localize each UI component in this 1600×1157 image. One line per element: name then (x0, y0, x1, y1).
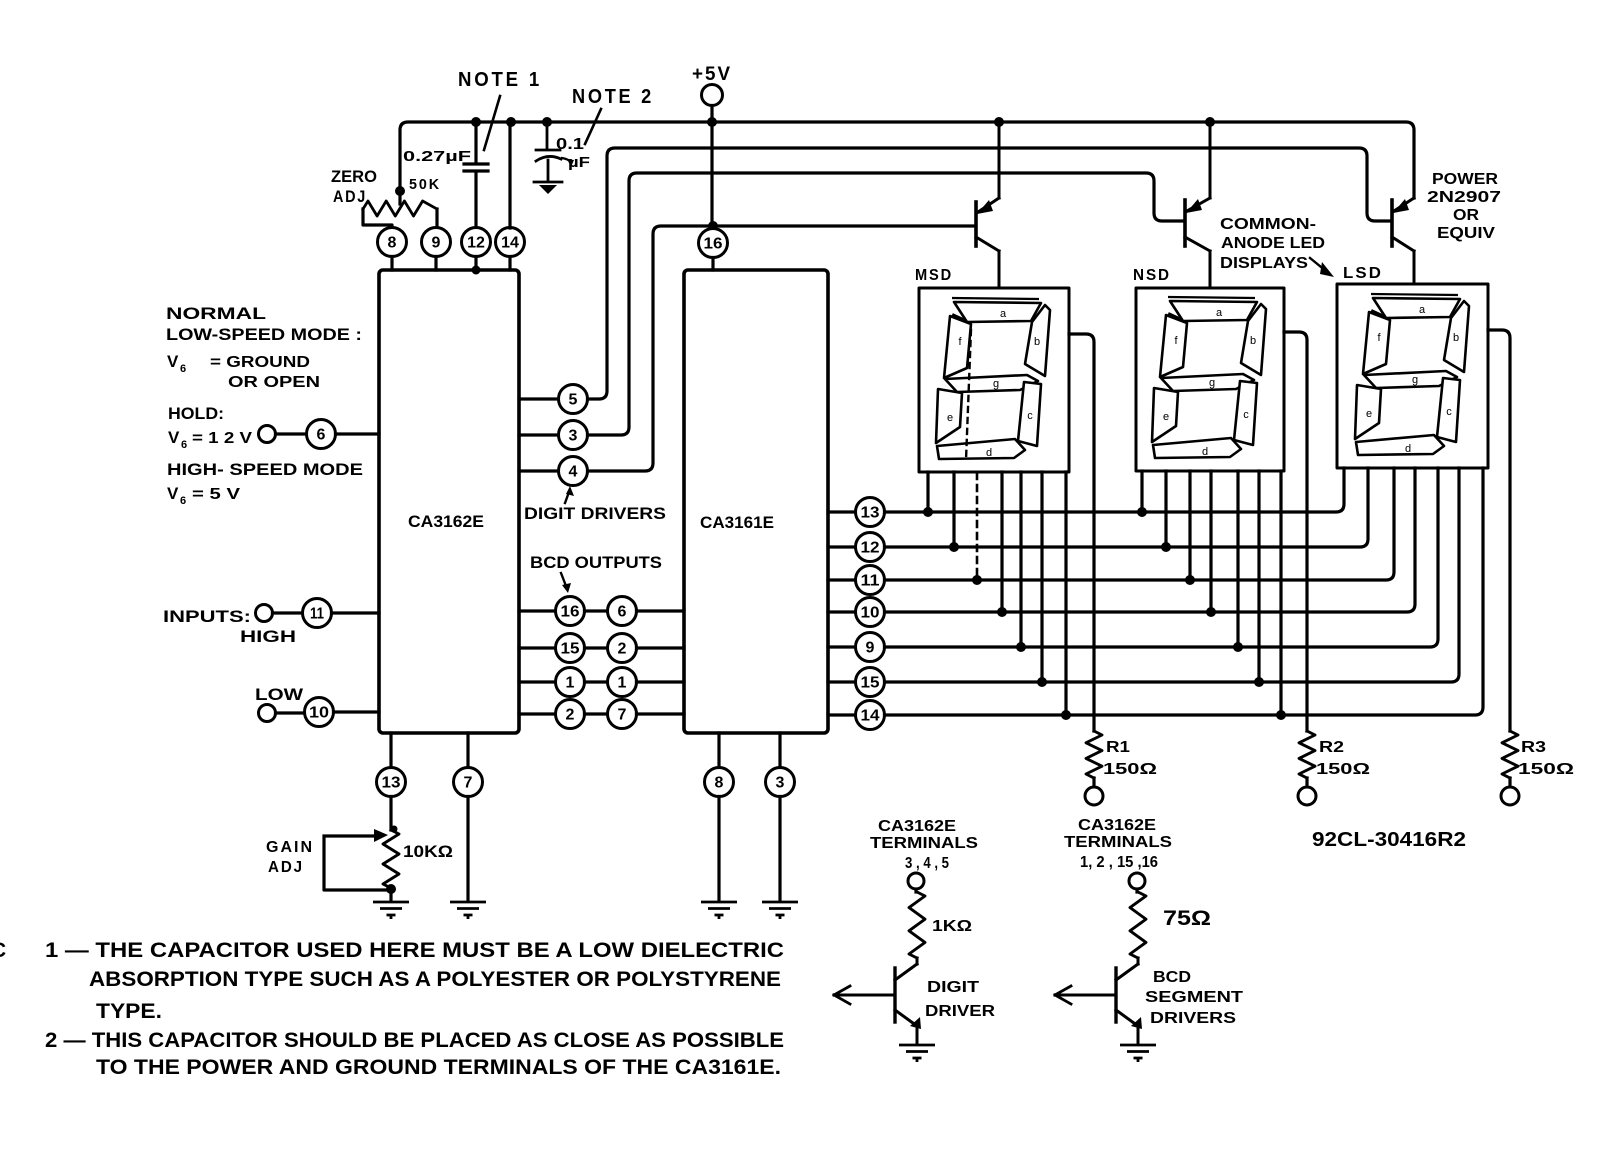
pin 3 (CA3161E) (766, 768, 795, 797)
svg-text:ADJ: ADJ (268, 859, 304, 876)
wire IC2 to pin 3 (778, 733, 781, 767)
svg-text:LSD: LSD (1343, 265, 1383, 282)
node pot top (391, 826, 398, 833)
wire +5V bus (top rail) (400, 122, 1414, 204)
wire pot wiper loop (324, 836, 390, 890)
wire pin14 stub (508, 257, 511, 271)
wire IC1 to pin 1 (519, 680, 555, 683)
svg-text:9: 9 (866, 640, 875, 657)
potentiometer gain 10K (383, 830, 399, 888)
leader NOTE 1 to C1 (484, 96, 500, 150)
wire MSD DP pin (dashed) (976, 473, 979, 578)
wire pin 2 to pin 7 (585, 712, 608, 715)
svg-text:R3: R3 (1521, 739, 1546, 756)
pin 9 (422, 228, 451, 257)
svg-text:1KΩ: 1KΩ (932, 918, 972, 935)
wire segment line 12 to LSD (885, 468, 1369, 547)
svg-text:NORMAL: NORMAL (166, 304, 266, 323)
svg-text:4: 4 (569, 464, 578, 481)
svg-text:+5V: +5V (692, 64, 732, 85)
wire NSD segment pin (1188, 471, 1191, 580)
svg-text:BCD: BCD (1153, 969, 1191, 986)
wire pot to ground (389, 888, 392, 901)
wire MSD segment pin (1019, 472, 1022, 647)
wire pin 2 to IC2 (637, 646, 685, 649)
wire IC2 to pin 8 (717, 733, 720, 767)
svg-text:6: 6 (180, 363, 186, 375)
svg-text:9: 9 (432, 235, 441, 252)
wire segment line 11 to LSD (885, 468, 1395, 580)
svg-text:50K: 50K (409, 176, 441, 193)
node pin12 at IC edge (472, 266, 481, 275)
svg-text:R2: R2 (1319, 739, 1344, 756)
wire pin14 to bus (508, 122, 511, 228)
wire R2 to terminal (1305, 778, 1308, 787)
svg-text:7: 7 (618, 707, 627, 724)
transistor bcd-segment sub-circuit (1055, 873, 1156, 1062)
+5V terminal (702, 85, 723, 106)
pin 1 (CA3162E) (556, 668, 585, 697)
transistor Q2 (NSD driver) (1185, 122, 1210, 288)
svg-text:CA3162E: CA3162E (408, 512, 484, 531)
node bus-Q1 emitter (994, 117, 1004, 127)
pin 15 (CA3161E right) (856, 668, 885, 697)
wire MSD segment pin (1040, 472, 1043, 682)
wire MSD segment pin (1000, 472, 1003, 612)
svg-text:12: 12 (861, 540, 880, 557)
node pot bottom (386, 884, 396, 894)
terminal R2 (1298, 787, 1316, 805)
wire segment line 13 to LSD (885, 468, 1345, 512)
wire pot wiper (395, 186, 405, 196)
wire MSD segment pin (926, 472, 929, 512)
wire segment line 10 to LSD (885, 468, 1416, 612)
wire pin3 to Q2 base (NSD) (588, 173, 1184, 435)
wire IC2 to pin 13 (828, 510, 855, 513)
wire IC2 to pin 10 (828, 610, 855, 613)
pin 10 (305, 698, 334, 727)
ground pin7 (450, 902, 486, 919)
leader NOTE 2 to C2 (585, 109, 601, 144)
wire IC1 to pin 15 (519, 646, 555, 649)
pin 7 (454, 768, 483, 797)
svg-text:V: V (167, 352, 179, 371)
pin 6 (307, 420, 336, 449)
pin 13 (CA3161E right) (856, 498, 885, 527)
leader arrow to C2 plate (562, 158, 574, 167)
capacitor C1 (464, 122, 488, 228)
pin 4 (559, 457, 588, 486)
svg-text:DIGIT: DIGIT (927, 979, 979, 996)
transistor Q1 (MSD driver) (976, 122, 999, 288)
wire NSD segment pin (1140, 471, 1143, 512)
node MSD DP junction (972, 575, 982, 585)
wire segment line 14 to LSD (885, 468, 1484, 715)
wire segment line 15 to LSD (885, 468, 1460, 682)
input terminal high (256, 605, 273, 622)
wire NSD segment pin (1164, 471, 1167, 547)
pin 2 (CA3161E) (608, 634, 637, 663)
svg-text:6: 6 (317, 427, 326, 444)
node bus-C2 (542, 117, 552, 127)
wire pin6 to IC (336, 432, 380, 435)
svg-text:6: 6 (618, 604, 627, 621)
wire NSD segment pin (1209, 471, 1212, 612)
pin 16 (699, 229, 728, 258)
wire pin7 to ground (466, 797, 469, 902)
svg-text:INPUTS:: INPUTS: (163, 607, 251, 626)
svg-text:DRIVER: DRIVER (925, 1003, 996, 1020)
svg-text:3: 3 (569, 428, 578, 445)
wire IC1 to pin 16 (519, 609, 555, 612)
svg-text:ABSORPTION TYPE SUCH AS A POLY: ABSORPTION TYPE SUCH AS A POLYESTER OR P… (89, 968, 781, 991)
wire NSD segment pin (1236, 471, 1239, 647)
svg-text:92CL-30416R2: 92CL-30416R2 (1312, 829, 1466, 851)
svg-text:6: 6 (180, 495, 186, 507)
wire low terminal to pin10 (276, 711, 305, 714)
svg-text:0.27µF: 0.27µF (403, 148, 471, 165)
pin 5 (559, 385, 588, 414)
svg-text:3 , 4 , 5: 3 , 4 , 5 (905, 855, 949, 872)
svg-text:2N2907: 2N2907 (1427, 189, 1501, 206)
wire IC1 to pin 7 (466, 733, 469, 767)
svg-text:OR OPEN: OR OPEN (228, 374, 320, 391)
node NSD junction (1276, 710, 1286, 720)
wire pot left end to pin 8 (363, 209, 392, 228)
svg-text:SEGMENT: SEGMENT (1145, 989, 1243, 1006)
svg-text:HIGH: HIGH (240, 627, 296, 646)
node NSD junction (1254, 677, 1264, 687)
pin 14 (CA3161E right) (856, 701, 885, 730)
svg-text:COMMON-: COMMON- (1220, 216, 1316, 233)
svg-text:1 — THE CAPACITOR USED HERE MU: 1 — THE CAPACITOR USED HERE MUST BE A LO… (45, 939, 784, 962)
wire NSD segment pin (1279, 471, 1282, 715)
wire IC to pin4 (519, 469, 558, 472)
wire IC to pin5 (519, 397, 558, 400)
wire MSD segment pin (1064, 472, 1067, 715)
node NSD junction (1206, 607, 1216, 617)
svg-text:NOTE 1: NOTE 1 (458, 69, 542, 91)
wire MSD segment pin (952, 472, 955, 547)
svg-text:150Ω: 150Ω (1518, 761, 1574, 778)
arrow bcd outputs to pin16 (561, 573, 571, 593)
node MSD junction (923, 507, 933, 517)
wire +5V to pin16 (710, 122, 713, 228)
pin 10 (CA3161E right) (856, 598, 885, 627)
node MSD junction (1061, 710, 1071, 720)
pin 8 (378, 228, 407, 257)
arrow digit drivers to pin4 (565, 486, 574, 503)
svg-text:V: V (167, 484, 179, 503)
wire IC2 to pin 14 (828, 713, 855, 716)
svg-text:15: 15 (861, 675, 880, 692)
node NSD junction (1137, 507, 1147, 517)
svg-text:75Ω: 75Ω (1163, 907, 1211, 930)
svg-text:ZERO: ZERO (331, 167, 377, 186)
dashed DP line MSD inner (966, 330, 971, 460)
wire IC1 to pin 2 (519, 712, 555, 715)
svg-text:TERMINALS: TERMINALS (1064, 834, 1172, 851)
svg-text:ADJ: ADJ (333, 187, 367, 206)
ground pin3 (762, 902, 798, 919)
svg-text:BCD OUTPUTS: BCD OUTPUTS (530, 553, 662, 572)
svg-text:2: 2 (618, 641, 627, 658)
svg-text:NSD: NSD (1133, 267, 1171, 284)
svg-text:7: 7 (464, 775, 473, 792)
wire pin9 stub (434, 257, 437, 271)
ground pin8 (701, 902, 737, 919)
node bus-Q2 emitter (1205, 117, 1215, 127)
wire pin 16 to pin 6 (585, 609, 608, 612)
pin 3 (559, 421, 588, 450)
terminal R1 (1085, 787, 1103, 805)
svg-text:1: 1 (566, 675, 575, 692)
wire pin 6 to IC2 (637, 609, 685, 612)
svg-text:GAIN: GAIN (266, 839, 314, 856)
pin 7 (CA3161E) (608, 700, 637, 729)
svg-text:150Ω: 150Ω (1103, 761, 1157, 778)
pin 9 (CA3161E right) (856, 633, 885, 662)
wire IC2 to pin 11 (828, 578, 855, 581)
wire pin 1 to pin 1 (585, 680, 608, 683)
node bus-pin14 (506, 117, 516, 127)
ground C2 (534, 182, 562, 194)
pin 6 (CA3161E) (608, 597, 637, 626)
svg-text:3: 3 (776, 775, 785, 792)
wire pin8 to ground (717, 797, 720, 902)
wire R3 to terminal (1508, 778, 1511, 787)
svg-text:11: 11 (310, 606, 324, 623)
wire IC2 to pin 15 (828, 680, 855, 683)
svg-text:13: 13 (382, 775, 401, 792)
svg-text:HIGH- SPEED MODE: HIGH- SPEED MODE (167, 460, 363, 479)
wire IC2 to pin 12 (828, 545, 855, 548)
wire IC2 to pin 9 (828, 645, 855, 648)
svg-text:1: 1 (618, 675, 627, 692)
svg-text:ANODE LED: ANODE LED (1221, 235, 1325, 252)
svg-text:R1: R1 (1106, 739, 1130, 756)
wire pin 15 to pin 2 (585, 646, 608, 649)
wire +5V to bus (710, 106, 713, 123)
svg-text:C: C (0, 939, 6, 962)
pin 16 (CA3162E) (556, 597, 585, 626)
node NSD junction (1233, 642, 1243, 652)
wire segment line 9 to LSD (885, 468, 1439, 647)
node pin16 bus crossing (708, 221, 718, 231)
svg-text:5: 5 (569, 392, 578, 409)
op-amp U2 CA3161E (684, 270, 828, 733)
svg-text:V: V (168, 428, 180, 447)
wire hold terminal to pin6 (276, 432, 307, 435)
svg-text:14: 14 (861, 708, 880, 725)
svg-text:150Ω: 150Ω (1316, 761, 1370, 778)
pin 15 (CA3162E) (556, 634, 585, 663)
svg-text:13: 13 (861, 505, 880, 522)
svg-text:1, 2 , 15 ,16: 1, 2 , 15 ,16 (1080, 854, 1158, 871)
capacitor C2 (536, 122, 561, 181)
display LSD (1337, 284, 1488, 468)
svg-text:2: 2 (566, 707, 575, 724)
node NSD junction (1161, 542, 1171, 552)
wire pin4 to Q1 base (MSD) (588, 226, 975, 471)
resistor R3 150ohm (1502, 731, 1518, 778)
display NSD (1136, 288, 1284, 471)
node MSD junction (1037, 677, 1047, 687)
resistor R2 150ohm (1299, 731, 1315, 778)
svg-text:TO THE POWER AND GROUND TERMIN: TO THE POWER AND GROUND TERMINALS OF THE… (96, 1056, 781, 1079)
terminal R3 (1501, 787, 1519, 805)
arrow pot wiper (374, 829, 388, 842)
pin 1 (CA3161E) (608, 668, 637, 697)
display MSD (919, 288, 1069, 472)
svg-text:CA3162E: CA3162E (1078, 817, 1156, 834)
wire pin 1 to IC2 (637, 680, 685, 683)
svg-text:LOW-SPEED MODE :: LOW-SPEED MODE : (166, 325, 362, 344)
svg-text:16: 16 (704, 236, 723, 253)
wire pin8 stub (390, 257, 393, 271)
node bus-C1 (471, 117, 481, 127)
wire pin13 to pot top (389, 797, 392, 831)
arrow to LSD (1310, 258, 1334, 277)
node MSD junction (949, 542, 959, 552)
transistor Q3 (LSD driver, 2N2907) (1392, 198, 1414, 284)
node +5V bus junction (707, 117, 717, 127)
wire pin3 to ground (778, 797, 781, 902)
node NSD junction (1185, 575, 1195, 585)
svg-text:10: 10 (309, 705, 329, 722)
svg-text:2 — THIS CAPACITOR SHOULD BE P: 2 — THIS CAPACITOR SHOULD BE PLACED AS C… (45, 1029, 784, 1052)
ground pot (373, 902, 409, 919)
svg-text:CA3161E: CA3161E (700, 513, 774, 532)
svg-text:LOW: LOW (255, 685, 304, 704)
svg-text:NOTE 2: NOTE 2 (572, 86, 654, 108)
svg-text:TYPE.: TYPE. (96, 1000, 162, 1023)
wire LSD to R3 (1488, 330, 1510, 731)
node MSD junction (997, 607, 1007, 617)
svg-text:8: 8 (715, 775, 724, 792)
svg-text:CA3162E: CA3162E (878, 818, 956, 835)
pin 14 (496, 228, 525, 257)
svg-text:12: 12 (467, 235, 485, 252)
pin 11 (303, 599, 332, 628)
pin 11 (CA3161E right) (856, 566, 885, 595)
svg-text:OR: OR (1453, 207, 1479, 224)
svg-text:14: 14 (501, 235, 519, 252)
wire pin5 to Q3 base (LSD) (588, 148, 1391, 399)
wire pin 7 to IC2 (637, 712, 685, 715)
svg-text:TERMINALS: TERMINALS (870, 835, 978, 852)
svg-text:10: 10 (861, 605, 880, 622)
svg-text:EQUIV: EQUIV (1437, 225, 1495, 242)
svg-text:HOLD:: HOLD: (168, 404, 224, 423)
svg-text:= 1 2 V: = 1 2 V (192, 430, 252, 447)
pin 8 (CA3161E) (705, 768, 734, 797)
pin 2 (CA3162E) (556, 700, 585, 729)
resistor R1 150ohm (1086, 731, 1102, 778)
svg-text:MSD: MSD (915, 267, 953, 284)
wire R1 to terminal (1092, 778, 1095, 787)
wire pin12 stub (474, 257, 477, 271)
pin 12 (CA3161E right) (856, 533, 885, 562)
wire IC1 to pin 13 (389, 733, 392, 767)
svg-text:15: 15 (561, 641, 580, 658)
svg-text:6: 6 (181, 439, 187, 451)
transistor digit-driver sub-circuit (834, 873, 935, 1062)
wire NSD segment pin (1257, 471, 1260, 682)
wire high terminal to pin11 (273, 611, 303, 614)
wire MSD to R1 (1069, 334, 1094, 731)
input terminal low (259, 705, 276, 722)
pin 13 (377, 768, 406, 797)
wire NSD to R2 (1284, 332, 1307, 731)
svg-text:DRIVERS: DRIVERS (1150, 1010, 1236, 1027)
svg-text:16: 16 (561, 604, 580, 621)
wire pot right end to pin 9 (435, 209, 438, 228)
wire pin10 to IC (334, 710, 380, 713)
wire pin16 stub (711, 258, 714, 271)
svg-text:11: 11 (861, 573, 880, 590)
node MSD junction (1016, 642, 1026, 652)
pin 12 (462, 228, 491, 257)
svg-text:DISPLAYS: DISPLAYS (1220, 255, 1308, 272)
svg-text:10KΩ: 10KΩ (403, 842, 453, 861)
svg-text:8: 8 (388, 235, 397, 252)
wire pin11 to IC (332, 611, 380, 614)
wire IC to pin3 (519, 433, 558, 436)
svg-text:= GROUND: = GROUND (210, 354, 310, 371)
potentiometer zero-adj 50K (363, 201, 437, 216)
svg-text:POWER: POWER (1432, 171, 1498, 188)
input terminal hold (259, 426, 276, 443)
op-amp U1 CA3162E (379, 270, 519, 733)
svg-text:= 5 V: = 5 V (192, 486, 240, 503)
svg-text:DIGIT DRIVERS: DIGIT DRIVERS (524, 504, 666, 523)
